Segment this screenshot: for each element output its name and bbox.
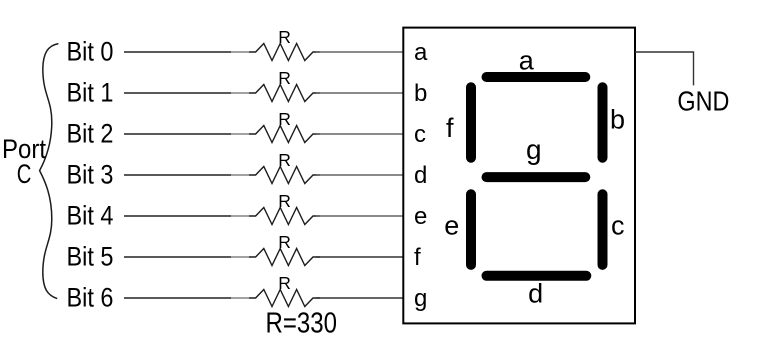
resistor R (Bit0)	[249, 44, 320, 61]
svg-text:Bit 5: Bit 5	[67, 241, 114, 271]
svg-text:R: R	[278, 27, 291, 47]
segment d	[487, 271, 587, 281]
svg-text:Bit 0: Bit 0	[67, 36, 114, 66]
wire Bit3 right	[316, 174, 403, 176]
resistor R (Bit6)	[249, 290, 320, 307]
svg-text:Bit 4: Bit 4	[67, 200, 114, 230]
svg-text:f: f	[446, 113, 454, 143]
resistor R (Bit1)	[249, 85, 320, 102]
segment e	[466, 194, 476, 265]
wire to GND	[635, 52, 694, 85]
resistor R (Bit4)	[249, 208, 320, 225]
svg-text:R: R	[278, 273, 291, 293]
resistor R (Bit5)	[249, 249, 320, 266]
segment a	[487, 72, 586, 82]
svg-text:Bit 1: Bit 1	[67, 77, 114, 107]
svg-text:R: R	[278, 232, 291, 252]
svg-text:Bit 2: Bit 2	[67, 118, 114, 148]
svg-text:c: c	[611, 210, 625, 240]
svg-text:C: C	[17, 159, 32, 189]
segment c	[598, 194, 608, 265]
wire Bit2 left	[124, 133, 231, 135]
segment f	[466, 87, 476, 157]
svg-text:GND: GND	[677, 85, 729, 116]
wire Bit0 left	[124, 51, 231, 53]
wire Bit3 left	[124, 174, 231, 176]
segment g	[487, 172, 586, 182]
segment b	[598, 87, 608, 157]
wire Bit0 right	[316, 51, 403, 53]
svg-text:R: R	[278, 191, 291, 211]
svg-text:a: a	[414, 39, 428, 66]
svg-text:Bit 3: Bit 3	[67, 159, 114, 189]
brace Port C	[40, 44, 59, 299]
7-segment display U1 box	[403, 28, 635, 324]
svg-text:c: c	[414, 121, 426, 148]
wire Bit4 left	[124, 215, 231, 217]
wire Bit1 right	[316, 92, 403, 94]
svg-text:e: e	[444, 210, 459, 240]
resistor R (Bit2)	[249, 126, 320, 143]
svg-text:e: e	[414, 203, 427, 230]
wire Bit5 left	[124, 256, 231, 258]
resistor R (Bit3)	[249, 167, 320, 184]
svg-text:R: R	[278, 68, 291, 88]
svg-text:b: b	[610, 105, 625, 135]
wire Bit2 right	[316, 133, 403, 135]
svg-text:R: R	[278, 150, 291, 170]
svg-text:R: R	[278, 109, 291, 129]
svg-text:R=330: R=330	[266, 308, 338, 340]
svg-text:d: d	[414, 162, 427, 189]
svg-text:f: f	[414, 244, 421, 271]
wire Bit5 right	[316, 256, 403, 258]
wire Bit1 left	[124, 92, 231, 94]
svg-text:b: b	[414, 80, 427, 107]
wire Bit6 right	[316, 297, 403, 299]
svg-text:Bit 6: Bit 6	[67, 282, 114, 312]
svg-text:g: g	[526, 134, 542, 165]
svg-text:a: a	[519, 46, 535, 76]
wire Bit6 left	[124, 297, 231, 299]
svg-text:d: d	[528, 278, 543, 308]
wire Bit4 right	[316, 215, 403, 217]
svg-text:g: g	[414, 285, 427, 312]
